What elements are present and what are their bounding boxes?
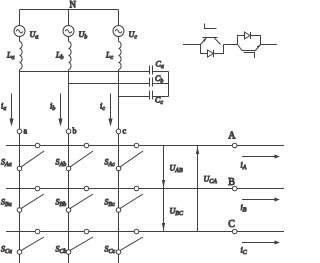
svg-text:b: b: [73, 127, 77, 136]
svg-text:Ub: Ub: [79, 30, 88, 41]
svg-text:UBC: UBC: [170, 207, 184, 218]
svg-text:SCa: SCa: [1, 245, 12, 256]
svg-text:iC: iC: [241, 246, 248, 257]
svg-text:c: c: [123, 127, 127, 136]
svg-text:ia: ia: [1, 102, 6, 113]
svg-text:ib: ib: [50, 102, 55, 113]
svg-text:Lb: Lb: [55, 51, 63, 62]
svg-text:SBc: SBc: [105, 198, 116, 209]
svg-text:SCc: SCc: [105, 245, 116, 256]
svg-text:SAa: SAa: [1, 158, 12, 169]
svg-text:SBa: SBa: [1, 198, 12, 209]
svg-text:SBb: SBb: [56, 198, 67, 209]
svg-text:UAB: UAB: [170, 164, 183, 175]
svg-text:a: a: [24, 127, 28, 136]
svg-text:Lc: Lc: [105, 51, 113, 62]
svg-text:SAc: SAc: [105, 158, 116, 169]
svg-text:SAb: SAb: [56, 158, 67, 169]
svg-text:ic: ic: [100, 102, 105, 113]
svg-text:Uc: Uc: [129, 30, 138, 41]
svg-text:N: N: [70, 0, 77, 10]
svg-text:La: La: [6, 51, 14, 62]
svg-text:A: A: [228, 131, 236, 142]
svg-text:Ua: Ua: [30, 30, 39, 41]
svg-text:C: C: [228, 219, 235, 230]
svg-text:Cc: Cc: [155, 96, 163, 107]
svg-text:Ca: Ca: [156, 60, 164, 71]
svg-text:Cb: Cb: [155, 74, 163, 85]
svg-text:B: B: [228, 177, 235, 188]
svg-text:iA: iA: [241, 161, 247, 172]
svg-text:SCb: SCb: [56, 245, 67, 256]
svg-text:UCA: UCA: [204, 175, 218, 186]
svg-text:iB: iB: [241, 203, 247, 214]
